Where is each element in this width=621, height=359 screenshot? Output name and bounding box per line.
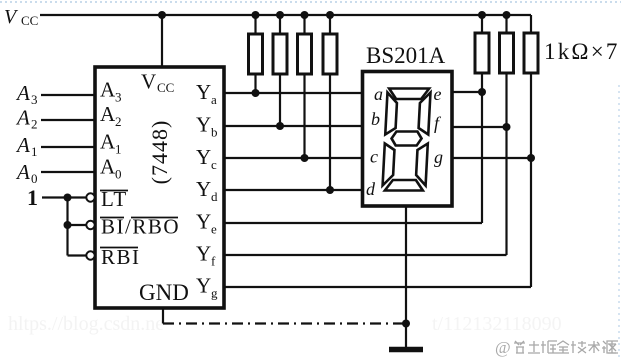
svg-text:A: A xyxy=(100,78,116,102)
svg-text:V: V xyxy=(141,70,156,94)
wire VCC rail xyxy=(40,14,531,16)
U1 pin label A2 xyxy=(100,102,122,129)
svg-text:1: 1 xyxy=(31,144,38,159)
resistor R6 xyxy=(500,15,514,255)
svg-text:3: 3 xyxy=(115,90,122,105)
wire A0 input xyxy=(41,171,95,173)
术 xyxy=(588,341,600,353)
svg-text:@: @ xyxy=(495,338,511,357)
input label A3 xyxy=(15,81,38,107)
svg-text:3: 3 xyxy=(31,92,38,107)
svg-text:GND: GND xyxy=(139,280,189,305)
junction g-R7 xyxy=(527,154,535,162)
svg-text:Y: Y xyxy=(196,145,211,169)
svg-text:d: d xyxy=(366,179,376,199)
U1 pin label Ye xyxy=(196,210,217,237)
junction R2 top xyxy=(276,11,284,19)
wire A3 input xyxy=(41,94,95,96)
svg-text:c: c xyxy=(370,147,378,167)
svg-text:e: e xyxy=(211,222,217,237)
wire A2 input xyxy=(41,119,95,121)
svg-text:d: d xyxy=(211,189,218,204)
wire U1 GND stub xyxy=(162,308,164,324)
junction 1-LT xyxy=(64,194,72,202)
svg-text:RBI: RBI xyxy=(101,245,141,269)
U1 pin label A0 xyxy=(100,155,122,182)
display digit segments xyxy=(382,89,430,191)
wire display f to R6 xyxy=(452,126,507,128)
svg-text:2: 2 xyxy=(115,114,122,129)
junction e-R5 xyxy=(478,88,486,96)
junction 1-BI/RBO xyxy=(64,221,72,229)
U1 pin label A3 xyxy=(100,78,122,105)
U1 pin label Ya xyxy=(196,80,217,107)
junction GND-display xyxy=(402,320,410,328)
resistor R2 xyxy=(273,15,287,126)
技 xyxy=(571,341,586,353)
svg-text:g: g xyxy=(434,147,443,167)
svg-text:1: 1 xyxy=(27,185,38,210)
U1 pin label VCC xyxy=(141,70,174,96)
resistor R7 xyxy=(524,15,538,287)
svg-text:c: c xyxy=(211,157,217,172)
resistor R1 xyxy=(249,15,263,93)
junction R1 top xyxy=(252,11,260,19)
segment lower-left (c) xyxy=(383,144,395,186)
wire 1 branch vertical xyxy=(66,198,68,256)
resistor R4 xyxy=(323,15,337,190)
wire display e to R5 xyxy=(452,91,482,93)
svg-text:f: f xyxy=(211,254,216,269)
svg-text:hltps.//blog.csdn.ne: hltps.//blog.csdn.ne xyxy=(8,313,164,335)
金 xyxy=(557,341,569,353)
U1 pin label Yb xyxy=(196,113,218,140)
junction R4 top xyxy=(326,11,334,19)
junction f-R6 xyxy=(503,123,511,131)
input label A2 xyxy=(15,106,38,132)
U1 pin label A1 xyxy=(100,130,122,157)
wire Yd to display d xyxy=(224,189,362,191)
resistor R3 xyxy=(298,15,312,158)
wire Ya to display a xyxy=(224,92,362,94)
区 xyxy=(607,341,618,353)
svg-text:A: A xyxy=(15,133,30,157)
segment bottom (d) xyxy=(385,180,424,191)
input label A1 xyxy=(15,133,38,159)
wire Yb to display b xyxy=(224,125,362,127)
junction R3 top xyxy=(301,11,309,19)
junction R6 top xyxy=(503,11,511,19)
U1 pin label LT (active low) xyxy=(100,187,128,211)
wire A1 input xyxy=(41,146,95,148)
svg-text:t/112132118090: t/112132118090 xyxy=(432,313,562,335)
segment middle xyxy=(391,132,422,146)
svg-text:2: 2 xyxy=(31,117,38,132)
decorative top dotted border xyxy=(0,1,621,3)
svg-text:CC: CC xyxy=(21,13,38,28)
svg-text:Y: Y xyxy=(196,274,211,298)
wire Yg horizontal xyxy=(224,286,531,288)
inverter bubble BI/RBO xyxy=(86,221,94,229)
U1 pin label BI/RBO (active low) xyxy=(100,215,180,239)
decorative right dotted border xyxy=(618,85,620,359)
svg-text:BS201A: BS201A xyxy=(366,43,446,68)
svg-text:a: a xyxy=(374,84,383,104)
掘 xyxy=(541,341,557,353)
svg-text:1kΩ×7: 1kΩ×7 xyxy=(544,39,620,64)
svg-text:b: b xyxy=(211,125,218,140)
inverter bubble RBI xyxy=(86,251,94,259)
svg-text:a: a xyxy=(211,92,217,107)
svg-text:CC: CC xyxy=(157,80,174,95)
svg-text:1: 1 xyxy=(115,142,122,157)
display DS1 body xyxy=(363,72,453,207)
svg-text:(7448): (7448) xyxy=(147,120,172,185)
resistor R5 xyxy=(475,15,489,223)
svg-text:Y: Y xyxy=(196,113,211,137)
svg-text:A: A xyxy=(15,160,30,184)
wire GND dash-dot xyxy=(163,322,406,324)
svg-text:Y: Y xyxy=(196,210,211,234)
svg-text:Y: Y xyxy=(196,242,211,266)
svg-text:A: A xyxy=(100,155,116,179)
wire display g to R7 xyxy=(452,157,531,159)
U1 pin label Yg xyxy=(196,274,218,301)
svg-text:A: A xyxy=(100,102,116,126)
junction R1-Ya xyxy=(252,89,260,97)
input label A0 xyxy=(15,160,38,186)
土 xyxy=(528,341,540,353)
svg-text:e: e xyxy=(434,84,442,104)
svg-text:0: 0 xyxy=(31,171,38,186)
segment upper-right (f side) xyxy=(418,93,430,135)
社 xyxy=(602,341,616,353)
inverter bubble LT xyxy=(86,193,94,201)
ground symbol xyxy=(389,347,423,353)
segment upper-left (b) xyxy=(385,93,397,135)
wire branch to RBI xyxy=(68,254,87,256)
svg-text:Y: Y xyxy=(196,177,211,201)
wire Ye horizontal xyxy=(224,222,482,224)
svg-text:0: 0 xyxy=(115,167,122,182)
svg-text:A: A xyxy=(15,106,30,130)
svg-text:A: A xyxy=(100,130,116,154)
wire 1 to LT xyxy=(42,196,87,198)
wire Yf horizontal xyxy=(224,254,507,256)
U1 pin label RBI (active low) xyxy=(100,245,141,269)
wire branch to BI/RBO xyxy=(68,224,87,226)
junction R4-Yd xyxy=(326,186,334,194)
IC U1 7448 body xyxy=(95,67,224,308)
junction R3-Yc xyxy=(301,154,309,162)
junction VCC-U1 xyxy=(158,11,166,19)
svg-text:g: g xyxy=(211,286,218,301)
junction R5 top xyxy=(478,11,486,19)
svg-text:b: b xyxy=(371,109,380,129)
U1 pin label Yc xyxy=(196,145,217,172)
watermark @稀土掘金技术社区 (drawn glyphs) xyxy=(495,338,618,357)
U1 pin label Yd xyxy=(196,177,218,204)
U1 pin label Yf xyxy=(196,242,216,269)
segment top (a-e) xyxy=(389,89,430,100)
wire Yc to display c xyxy=(224,157,362,159)
稀 xyxy=(514,341,525,353)
segment lower-right (g side) xyxy=(416,144,428,186)
junction R2-Yb xyxy=(276,122,284,130)
svg-text:A: A xyxy=(15,81,30,105)
wire VCC stub to U1 xyxy=(161,15,163,67)
wire display common to ground xyxy=(405,206,407,347)
svg-text:Y: Y xyxy=(196,80,211,104)
